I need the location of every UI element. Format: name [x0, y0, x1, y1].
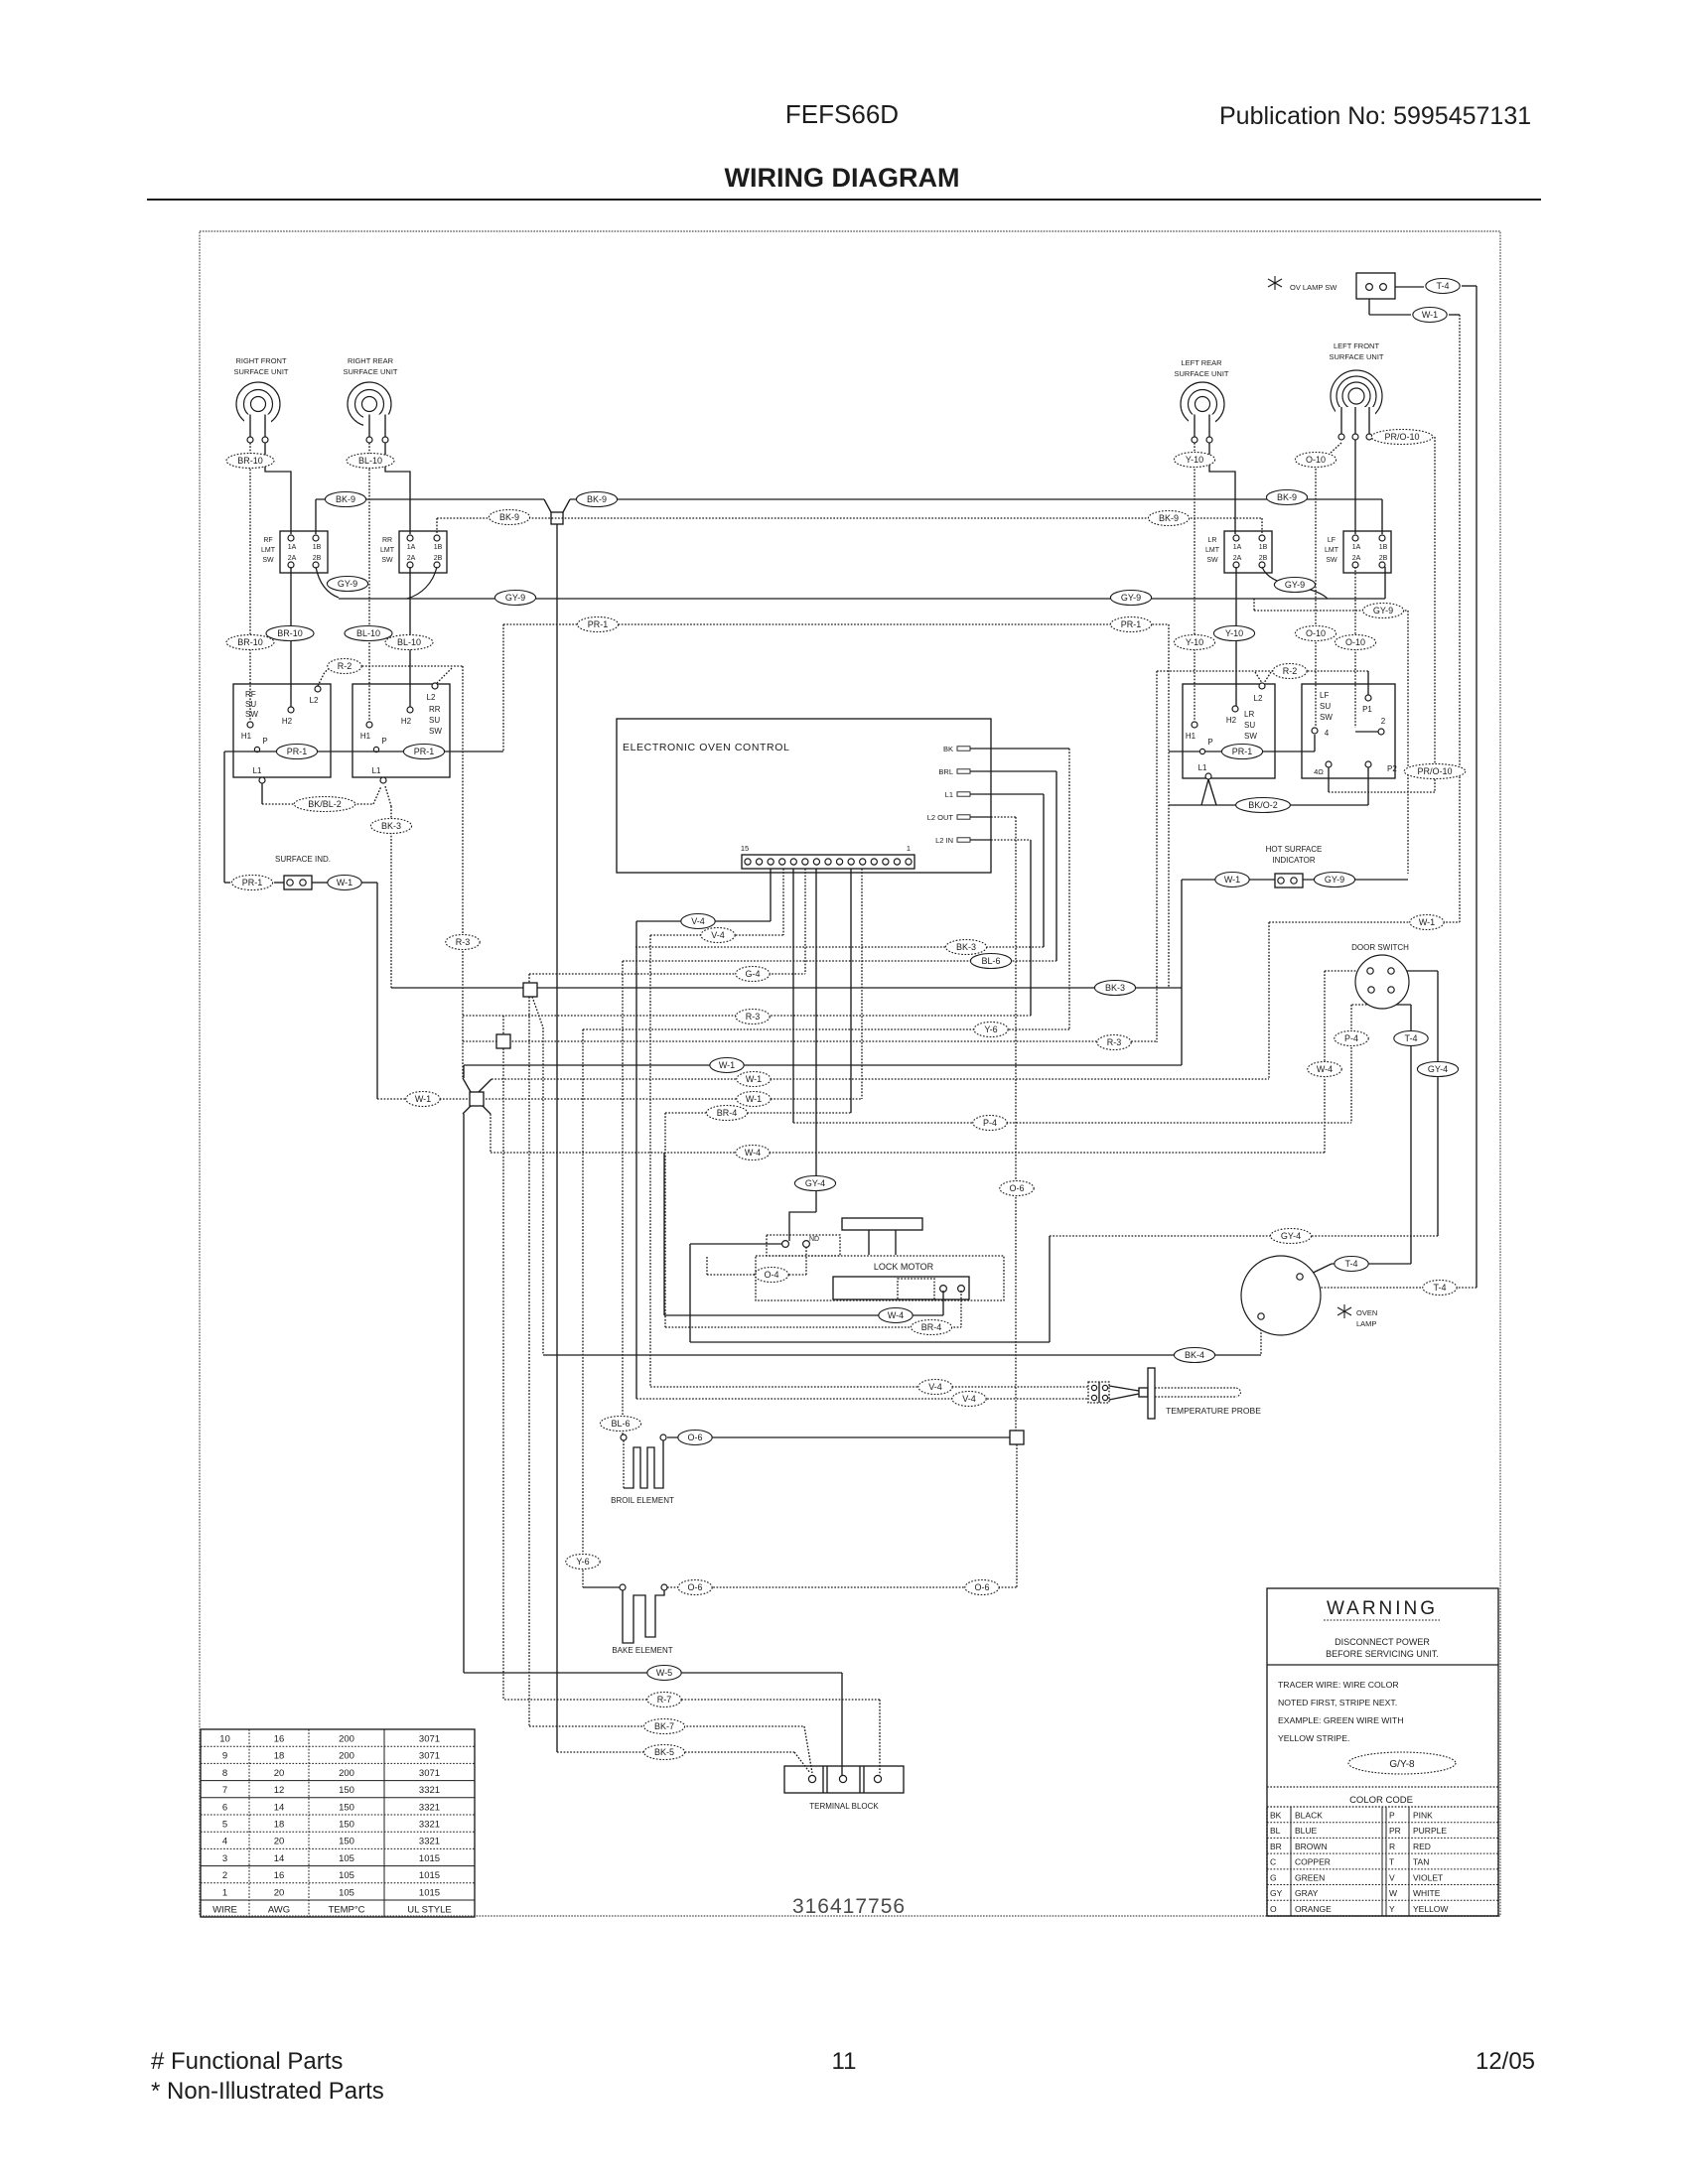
svg-text:TRACER WIRE: WIRE COLOR: TRACER WIRE: WIRE COLOR — [1278, 1680, 1399, 1690]
wire W-1 solid loop — [1181, 880, 1183, 1065]
svg-text:105: 105 — [339, 1853, 354, 1864]
svg-text:SURFACE UNIT: SURFACE UNIT — [1329, 352, 1383, 361]
wire label V-4 — [701, 928, 735, 943]
svg-text:4: 4 — [1325, 729, 1330, 738]
svg-text:BL-10: BL-10 — [397, 637, 421, 647]
svg-text:2A: 2A — [288, 555, 297, 562]
wire BK/O-2 — [1169, 804, 1368, 806]
wire label PR-1 — [1221, 745, 1262, 759]
svg-text:WHITE: WHITE — [1413, 1888, 1441, 1898]
svg-text:BROIL ELEMENT: BROIL ELEMENT — [611, 1496, 674, 1505]
wire label BR-4 — [911, 1320, 951, 1335]
svg-text:BR: BR — [1270, 1842, 1282, 1851]
wire W-1 vertical right side — [1459, 315, 1461, 922]
svg-text:105: 105 — [339, 1870, 354, 1881]
svg-text:L2 IN: L2 IN — [935, 836, 953, 845]
wire BR-4 — [665, 1112, 851, 1114]
svg-text:1B: 1B — [1259, 544, 1268, 551]
svg-text:H2: H2 — [1226, 716, 1237, 725]
svg-text:FEFS66D: FEFS66D — [785, 99, 899, 129]
svg-text:H2: H2 — [401, 717, 412, 726]
svg-text:11: 11 — [832, 2048, 857, 2075]
svg-text:BK-4: BK-4 — [1185, 1350, 1204, 1360]
svg-text:L2: L2 — [427, 693, 436, 702]
oven lamp switch asterisk — [1268, 276, 1282, 290]
wire W-4 branch to lock motor — [663, 1153, 665, 1315]
svg-text:H1: H1 — [1186, 732, 1196, 741]
svg-text:O-10: O-10 — [1306, 628, 1326, 638]
wire door switch BR to T-4 — [1391, 993, 1411, 1005]
svg-text:2B: 2B — [1379, 555, 1388, 562]
svg-text:AWG: AWG — [268, 1905, 290, 1916]
wire label W-1 — [406, 1092, 440, 1107]
svg-text:L1: L1 — [1198, 763, 1207, 772]
wire door switch TL dashed — [1325, 970, 1367, 972]
svg-text:WARNING: WARNING — [1327, 1598, 1438, 1619]
svg-text:W-1: W-1 — [719, 1060, 735, 1070]
svg-text:PR-1: PR-1 — [588, 619, 609, 629]
svg-text:W-1: W-1 — [746, 1094, 762, 1104]
wire label BK-3 — [1094, 981, 1135, 996]
wire label O-6 — [678, 1431, 712, 1445]
svg-text:4Ω: 4Ω — [1314, 767, 1324, 776]
svg-text:BK: BK — [943, 745, 953, 753]
svg-text:* Non-Illustrated Parts: * Non-Illustrated Parts — [151, 2078, 384, 2105]
wire Y-10 left rear coil to H1 — [1194, 443, 1196, 722]
wire label PR-1 — [1110, 617, 1151, 632]
wire label PR/O-10 — [1404, 764, 1466, 779]
right front surface unit coil — [236, 382, 280, 426]
svg-text:R-3: R-3 — [456, 937, 471, 947]
wire label W-1 — [710, 1058, 744, 1073]
svg-text:V-4: V-4 — [962, 1394, 976, 1404]
wire BK-5 — [557, 1751, 794, 1753]
svg-text:COPPER: COPPER — [1295, 1857, 1331, 1867]
wire label GY-4 — [1270, 1229, 1311, 1244]
wire label P-4 — [1335, 1031, 1368, 1046]
electronic oven control box — [617, 719, 991, 873]
svg-text:PR-1: PR-1 — [414, 747, 435, 756]
temperature probe — [1109, 1386, 1139, 1391]
svg-text:OV LAMP SW: OV LAMP SW — [1290, 283, 1337, 292]
svg-text:ELECTRONIC OVEN CONTROL: ELECTRONIC OVEN CONTROL — [623, 742, 789, 753]
wire V-4 pin12 to probe — [782, 869, 784, 935]
wire gauge table — [201, 1729, 475, 1917]
svg-text:DOOR SWITCH: DOOR SWITCH — [1351, 943, 1409, 952]
wire T-4 from oven lamp switch — [1395, 286, 1424, 288]
switch RF SU SW box — [233, 684, 331, 777]
svg-text:LMT: LMT — [1205, 547, 1220, 554]
junction square O-6 — [1010, 1431, 1024, 1444]
wire right front coil to RF limit switch — [265, 443, 291, 534]
svg-text:G: G — [1270, 1872, 1277, 1882]
wire left rear coil to LR limit switch — [1209, 443, 1235, 534]
svg-text:SW: SW — [429, 727, 442, 736]
wire BK-9 dashed branch — [436, 518, 438, 534]
oven lamp switch box — [1356, 273, 1395, 299]
svg-text:3: 3 — [222, 1853, 227, 1864]
svg-text:BK-9: BK-9 — [587, 494, 607, 504]
wire label BK-3 — [370, 819, 411, 834]
svg-text:W-1: W-1 — [746, 1074, 762, 1084]
wire label R-2 — [1273, 664, 1307, 679]
wire V-4 pin13 to probe — [770, 869, 772, 921]
svg-text:BK-9: BK-9 — [499, 512, 519, 522]
svg-text:R-3: R-3 — [1107, 1037, 1122, 1047]
svg-text:OVEN: OVEN — [1356, 1308, 1377, 1317]
wire O-6 bake run — [667, 1586, 1017, 1588]
svg-text:BRL: BRL — [938, 767, 953, 776]
svg-text:12/05: 12/05 — [1476, 2048, 1535, 2075]
svg-text:10: 10 — [219, 1734, 230, 1745]
svg-text:1A: 1A — [288, 544, 297, 551]
svg-text:BEFORE SERVICING UNIT.: BEFORE SERVICING UNIT. — [1326, 1649, 1439, 1659]
svg-text:16: 16 — [274, 1870, 285, 1881]
svg-text:LMT: LMT — [261, 547, 276, 554]
svg-text:LR: LR — [1244, 710, 1254, 719]
svg-text:P-4: P-4 — [1344, 1033, 1358, 1043]
svg-text:2B: 2B — [313, 555, 322, 562]
svg-text:SURFACE IND.: SURFACE IND. — [275, 855, 331, 864]
wire label O-10 — [1335, 635, 1375, 650]
svg-text:W-1: W-1 — [337, 878, 352, 887]
svg-text:O-6: O-6 — [687, 1582, 702, 1592]
svg-text:C: C — [1270, 1857, 1276, 1867]
EOC terminal strip — [742, 855, 914, 869]
wire label W-1 — [1410, 915, 1444, 930]
svg-text:BK/O-2: BK/O-2 — [1248, 800, 1278, 810]
wire W-4 — [490, 1114, 492, 1153]
svg-text:14: 14 — [274, 1853, 285, 1864]
wire P-4 — [792, 869, 794, 1123]
wire label R-3 — [736, 1010, 770, 1024]
svg-text:SW: SW — [1244, 732, 1257, 741]
svg-text:Y-10: Y-10 — [1186, 455, 1203, 465]
svg-text:200: 200 — [339, 1751, 354, 1762]
svg-text:7: 7 — [222, 1785, 227, 1796]
wire P row left PR-1 — [257, 751, 503, 752]
svg-text:UL STYLE: UL STYLE — [407, 1905, 452, 1916]
svg-text:# Functional Parts: # Functional Parts — [151, 2048, 343, 2075]
svg-text:BL-6: BL-6 — [611, 1419, 630, 1429]
wire label PR/O-10 — [1371, 430, 1433, 445]
wire label W-1 — [737, 1092, 771, 1107]
svg-text:O-10: O-10 — [1345, 637, 1365, 647]
wire label GY-9 — [494, 591, 535, 606]
diagram border — [200, 231, 1500, 1916]
svg-text:ORANGE: ORANGE — [1295, 1904, 1332, 1914]
svg-text:BK-3: BK-3 — [1105, 983, 1125, 993]
wire LR L1 V — [1201, 779, 1208, 805]
wire label G/Y-8 — [1348, 1752, 1456, 1774]
wire label GY-9 — [1362, 604, 1403, 618]
junction square BK-9 — [551, 512, 563, 524]
svg-text:2: 2 — [222, 1870, 227, 1881]
svg-text:2B: 2B — [434, 555, 443, 562]
wire label BK/O-2 — [1236, 798, 1291, 813]
wire label V-4 — [952, 1392, 986, 1407]
svg-text:RED: RED — [1413, 1842, 1431, 1851]
svg-text:3071: 3071 — [419, 1768, 440, 1779]
svg-text:GY-4: GY-4 — [805, 1178, 825, 1188]
wire label P-4 — [973, 1116, 1007, 1131]
wire label T-4 — [1335, 1257, 1368, 1272]
junction square R — [496, 1034, 510, 1048]
svg-text:P-4: P-4 — [983, 1118, 997, 1128]
svg-text:LMT: LMT — [380, 547, 395, 554]
svg-text:VIOLET: VIOLET — [1413, 1872, 1443, 1882]
svg-text:SU: SU — [1244, 721, 1255, 730]
svg-text:GRAY: GRAY — [1295, 1888, 1319, 1898]
surface indicator lamp box — [284, 876, 312, 889]
svg-text:1: 1 — [222, 1887, 227, 1898]
svg-text:BK: BK — [1270, 1811, 1282, 1821]
wire BK-9 main bus — [315, 499, 317, 534]
svg-text:COLOR CODE: COLOR CODE — [1349, 1795, 1413, 1806]
svg-text:16: 16 — [274, 1734, 285, 1745]
wire label BL-6 — [600, 1417, 640, 1432]
hot surface indicator lamp box — [1275, 874, 1303, 887]
wire label BK-9 — [576, 492, 617, 507]
wire label BL-6 — [970, 954, 1011, 969]
wire LR P to PR-1 to LF 4 — [1169, 751, 1199, 752]
lock motor bracket — [842, 1218, 922, 1230]
svg-text:1015: 1015 — [419, 1853, 440, 1864]
svg-text:316417756: 316417756 — [792, 1895, 906, 1918]
temperature probe connector — [1088, 1382, 1109, 1403]
wire GY-9 dashed branch to hot surface indicator — [1253, 599, 1255, 611]
oven lamp — [1241, 1256, 1321, 1335]
svg-text:PINK: PINK — [1413, 1811, 1433, 1821]
svg-text:SW: SW — [245, 710, 258, 719]
svg-text:GY-9: GY-9 — [1373, 606, 1393, 615]
wire label W-4 — [736, 1146, 770, 1160]
svg-text:DISCONNECT POWER: DISCONNECT POWER — [1335, 1637, 1430, 1647]
wire label O-4 — [755, 1268, 788, 1283]
svg-text:BR-4: BR-4 — [921, 1322, 942, 1332]
wire O-6 from L2 OUT pin — [991, 816, 1016, 818]
wire T-4 vertical right side — [1476, 286, 1477, 1288]
svg-text:P1: P1 — [1362, 705, 1372, 714]
svg-text:BL-10: BL-10 — [356, 628, 380, 638]
wire PR/O-10 right side — [1372, 436, 1376, 438]
svg-text:O: O — [1270, 1904, 1277, 1914]
svg-text:150: 150 — [339, 1820, 354, 1831]
wire RF L1 to BK/BL-2 — [261, 783, 263, 804]
svg-text:W-5: W-5 — [656, 1668, 672, 1678]
wire O-10 left front coil — [1316, 443, 1341, 459]
svg-text:YELLOW STRIPE.: YELLOW STRIPE. — [1278, 1733, 1349, 1743]
svg-text:3321: 3321 — [419, 1785, 440, 1796]
lock motor outline — [756, 1256, 1004, 1300]
wire label Y-6 — [974, 1023, 1008, 1037]
wire BL-6 from BRL pin — [991, 770, 1056, 772]
svg-text:8: 8 — [222, 1768, 227, 1779]
svg-text:RF: RF — [263, 537, 272, 544]
wire PR-1 dashed bus — [503, 623, 1169, 625]
svg-text:3071: 3071 — [419, 1751, 440, 1762]
svg-text:L1: L1 — [372, 766, 381, 775]
wire label PR-1 — [231, 876, 272, 890]
wire R vertical to R-7 — [502, 1016, 504, 1034]
wire label GY-9 — [1274, 578, 1315, 593]
svg-text:BK-7: BK-7 — [654, 1721, 674, 1731]
svg-text:1A: 1A — [1352, 544, 1361, 551]
svg-text:V-4: V-4 — [928, 1382, 942, 1392]
limit switch LF LMT SW — [1343, 531, 1391, 573]
wire label V-4 — [681, 914, 715, 929]
svg-text:PR-1: PR-1 — [1232, 747, 1253, 756]
svg-text:20: 20 — [274, 1887, 285, 1898]
svg-text:SW: SW — [1326, 557, 1337, 564]
svg-text:3071: 3071 — [419, 1734, 440, 1745]
svg-text:W: W — [1389, 1888, 1397, 1898]
wire surface indicator left leg — [224, 751, 257, 752]
wire label BR-10 — [226, 454, 274, 469]
svg-text:3321: 3321 — [419, 1802, 440, 1813]
svg-text:TEMP°C: TEMP°C — [328, 1905, 364, 1916]
limit switch RF LMT SW — [280, 531, 328, 573]
svg-text:T: T — [1389, 1857, 1394, 1867]
svg-text:BLUE: BLUE — [1295, 1826, 1318, 1836]
svg-text:SURFACE UNIT: SURFACE UNIT — [1174, 369, 1228, 378]
limit switch RR LMT SW — [399, 531, 447, 573]
wire label BR-10 — [226, 635, 274, 650]
svg-text:W-1: W-1 — [415, 1094, 431, 1104]
svg-text:EXAMPLE: GREEN WIRE WIT: EXAMPLE: GREEN WIRE WITH — [1278, 1715, 1403, 1725]
svg-text:BR-4: BR-4 — [717, 1108, 738, 1118]
svg-text:20: 20 — [274, 1768, 285, 1779]
wire label BK-9 — [489, 510, 529, 525]
wire BK-3 solid bus — [391, 987, 1182, 989]
svg-text:GY-9: GY-9 — [1121, 593, 1141, 603]
svg-text:Y-6: Y-6 — [576, 1557, 589, 1567]
wire O-6 broil run — [667, 1436, 1010, 1438]
svg-text:LEFT REAR: LEFT REAR — [1181, 358, 1222, 367]
svg-text:LAMP: LAMP — [1356, 1319, 1376, 1328]
junction square BK bus — [523, 983, 537, 997]
svg-text:1B: 1B — [1379, 544, 1388, 551]
svg-text:BAKE ELEMENT: BAKE ELEMENT — [612, 1646, 672, 1655]
wire label W-4 — [1308, 1062, 1341, 1077]
lock motor ND terminals — [767, 1235, 840, 1256]
svg-text:1B: 1B — [313, 544, 322, 551]
svg-text:BL-10: BL-10 — [358, 456, 382, 466]
svg-text:BK-3: BK-3 — [381, 821, 401, 831]
wire GY-9 bus — [316, 567, 339, 598]
svg-text:G/Y-8: G/Y-8 — [1389, 1759, 1415, 1770]
svg-text:RIGHT REAR: RIGHT REAR — [348, 356, 394, 365]
color code table — [1267, 1807, 1498, 1916]
svg-text:GY-4: GY-4 — [1281, 1231, 1301, 1241]
limit switch LR LMT SW — [1224, 531, 1272, 573]
svg-text:150: 150 — [339, 1785, 354, 1796]
wire BK-7 — [528, 997, 530, 1726]
wire BR-10 right front coil to H1 — [249, 443, 251, 722]
wire label Y-10 — [1174, 453, 1214, 468]
svg-text:150: 150 — [339, 1802, 354, 1813]
wire LF limit 2A to O-10 to terminal 2 — [1354, 567, 1356, 728]
wire label PR-1 — [276, 745, 317, 759]
svg-text:TERMINAL BLOCK: TERMINAL BLOCK — [809, 1802, 879, 1811]
svg-text:SURFACE UNIT: SURFACE UNIT — [233, 367, 288, 376]
svg-text:PR-1: PR-1 — [242, 878, 263, 887]
svg-text:O-4: O-4 — [764, 1270, 778, 1280]
wire R-3 vertical x1165 — [1156, 671, 1158, 1042]
svg-text:BR-10: BR-10 — [277, 628, 303, 638]
svg-text:GY-9: GY-9 — [505, 593, 525, 603]
svg-text:INDICATOR: INDICATOR — [1272, 856, 1315, 865]
wire label GY-4 — [794, 1176, 835, 1191]
left rear surface unit coil — [1181, 382, 1224, 426]
svg-text:Y-10: Y-10 — [1186, 637, 1203, 647]
wire BK-4 diagonal branch — [532, 997, 543, 1027]
svg-text:GY-9: GY-9 — [1325, 875, 1344, 885]
door switch — [1355, 955, 1409, 1009]
wire label GY-4 — [1417, 1062, 1458, 1077]
svg-text:BR-10: BR-10 — [237, 637, 263, 647]
wire label W-1 — [737, 1072, 771, 1087]
svg-text:L2: L2 — [310, 696, 319, 705]
wire label O-10 — [1295, 626, 1336, 641]
svg-text:GREEN: GREEN — [1295, 1872, 1325, 1882]
wire label BK-7 — [643, 1719, 684, 1734]
wire label BR-10 — [266, 626, 314, 641]
wire W-1 surface ind to X junction — [274, 882, 284, 884]
svg-text:9: 9 — [222, 1751, 227, 1762]
wire main L1 feed vertical x561 — [556, 524, 558, 1752]
switch RR SU SW box — [352, 684, 450, 777]
svg-text:3321: 3321 — [419, 1820, 440, 1831]
wire O-4 — [707, 1274, 806, 1276]
svg-text:105: 105 — [339, 1887, 354, 1898]
svg-text:PR: PR — [1389, 1826, 1401, 1836]
svg-text:GY-4: GY-4 — [1428, 1064, 1448, 1074]
wire door switch TR to GY-4 — [1394, 970, 1438, 972]
svg-text:SURFACE UNIT: SURFACE UNIT — [343, 367, 397, 376]
wire label Y-10 — [1213, 626, 1254, 641]
svg-text:R-3: R-3 — [746, 1012, 761, 1022]
wire label BK-9 — [1148, 511, 1189, 526]
svg-text:NOTED FIRST, STRIPE NEXT.: NOTED FIRST, STRIPE NEXT. — [1278, 1698, 1397, 1707]
svg-text:SU: SU — [1320, 702, 1331, 711]
wire W-1 dashed y1087 — [492, 1078, 1269, 1080]
svg-text:6: 6 — [222, 1802, 227, 1813]
wire R-3 vertical x466 — [462, 666, 464, 1078]
wire label Y-6 — [566, 1555, 600, 1570]
svg-text:GY: GY — [1270, 1888, 1283, 1898]
wire GY-4 pin9 to lock motor — [815, 869, 817, 1212]
svg-text:TAN: TAN — [1413, 1857, 1429, 1867]
svg-text:H1: H1 — [241, 732, 252, 741]
svg-text:RR: RR — [382, 537, 392, 544]
svg-text:O-6: O-6 — [1009, 1183, 1024, 1193]
svg-text:1015: 1015 — [419, 1870, 440, 1881]
wire HSI GY-9 right — [1303, 879, 1408, 881]
wire label BK-3 — [945, 940, 986, 955]
svg-text:BK-5: BK-5 — [654, 1747, 674, 1757]
wire label W-1 — [328, 876, 361, 890]
wire R-2 left — [318, 666, 333, 686]
wire GY-9 right squiggle LR 2B — [1262, 567, 1328, 599]
svg-text:TEMPERATURE PROBE: TEMPERATURE PROBE — [1166, 1406, 1261, 1416]
svg-text:2A: 2A — [1352, 555, 1361, 562]
svg-text:1: 1 — [907, 844, 911, 853]
wire label GY-9 — [1314, 873, 1354, 887]
wire BK-3 dashed from L1 pin — [991, 793, 1044, 795]
svg-text:BL: BL — [1270, 1826, 1281, 1836]
svg-text:SU: SU — [429, 716, 440, 725]
